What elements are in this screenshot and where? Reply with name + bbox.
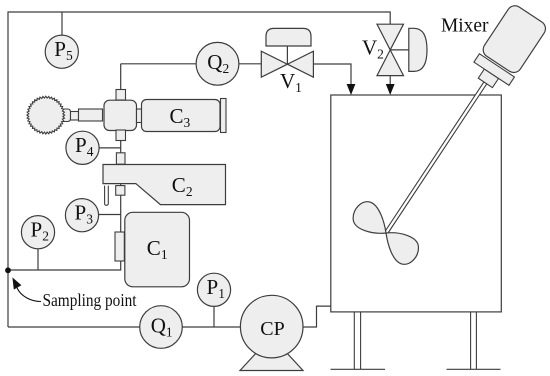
gauge P4: [66, 131, 99, 164]
mixer motor body: [480, 3, 548, 76]
pump CP base: [240, 351, 303, 371]
tank right leg: [447, 312, 501, 369]
gauge P1: [197, 273, 230, 306]
wire P2 stem: [37, 249, 39, 270]
C2 thin tube: [105, 186, 109, 206]
component C1: [125, 212, 190, 286]
sampling point dot: [5, 267, 11, 273]
wire loop left border and top to V2: [8, 12, 390, 327]
gauge P3: [65, 199, 98, 232]
neck to C3: [137, 109, 144, 123]
pump CP body: [240, 295, 303, 358]
component C2: [103, 165, 226, 205]
valve V1 actuator dome: [266, 28, 311, 46]
pump head block C3 left: [104, 100, 137, 130]
wire Q2 pipe to V1: [121, 63, 262, 65]
valve V1: [261, 51, 313, 77]
gear tab: [57, 109, 71, 122]
wire V2 down to tank: [389, 76, 391, 85]
component C3 body: [142, 100, 221, 132]
valve V2: [377, 24, 404, 75]
valve V2 actuator: [409, 28, 427, 71]
flow meter Q1: [140, 306, 183, 349]
impeller lower lobe: [386, 233, 418, 265]
wire vertical sample pipe: [8, 64, 121, 270]
impeller upper lobe: [353, 202, 386, 234]
gear wheel: [27, 96, 65, 134]
block top stub: [116, 90, 126, 101]
feed arrow from V1 branch: [347, 84, 356, 95]
pipe collar under C2: [116, 186, 125, 196]
wire pump outlet: [303, 306, 331, 327]
wire P1 stem: [213, 306, 215, 327]
svg-text:CP: CP: [260, 318, 284, 340]
flow meter Q2: [196, 42, 239, 85]
gauge P2: [21, 216, 54, 249]
wire P3 line: [99, 214, 121, 216]
block bottom stub: [116, 130, 126, 141]
feed arrow from V2: [386, 84, 395, 95]
valve V2 stem: [390, 49, 409, 51]
svg-text:Sampling point: Sampling point: [43, 290, 137, 310]
wire P5 stem: [61, 12, 63, 36]
svg-text:Mixer: Mixer: [441, 15, 489, 37]
C3 end cap: [221, 99, 227, 133]
gauge P5: [45, 35, 78, 68]
wire V1 to tank branch: [313, 64, 351, 85]
gear shaft neck: [71, 112, 79, 121]
gear bar: [79, 109, 103, 121]
wire P4 line: [99, 147, 121, 149]
mixer shaft: [385, 80, 488, 234]
pipe stub above C2: [116, 153, 125, 164]
mixer assembly: [368, 3, 548, 245]
sampling point arrow: [17, 288, 41, 302]
tank: [331, 95, 502, 312]
mixer collar: [474, 54, 515, 86]
gear motor: [27, 96, 103, 134]
wire bottom pipe: [8, 326, 241, 328]
valve V1 stem: [286, 46, 288, 64]
tank left leg: [331, 312, 386, 369]
C1 side connector: [115, 232, 124, 261]
mixer neck: [478, 69, 498, 88]
